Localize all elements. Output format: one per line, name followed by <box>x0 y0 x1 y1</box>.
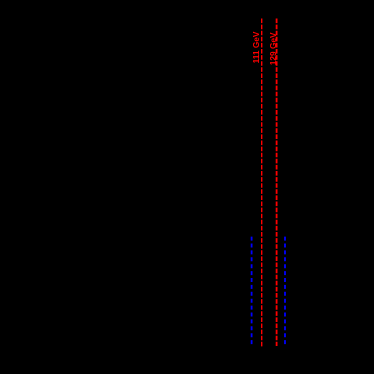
svg-text:111 GeV: 111 GeV <box>251 31 261 63</box>
red dashed line 111 GeV <box>261 19 263 347</box>
svg-text:129 GeV: 129 GeV <box>268 32 278 65</box>
blue dashed line (left band edge) <box>251 237 253 346</box>
blue dashed line (right band edge) <box>284 237 286 346</box>
red dashed line 129 GeV <box>276 19 278 347</box>
